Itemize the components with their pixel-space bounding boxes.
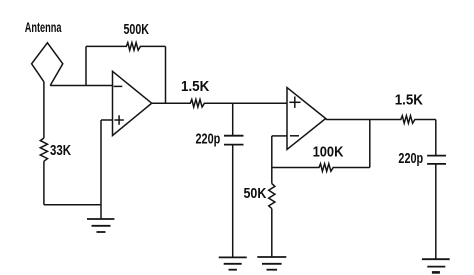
svg-text:220p: 220p — [196, 130, 221, 147]
svg-text:33K: 33K — [50, 142, 71, 159]
svg-text:1.5K: 1.5K — [395, 92, 423, 109]
svg-text:100K: 100K — [313, 143, 344, 160]
svg-text:50K: 50K — [244, 185, 267, 202]
svg-text:1.5K: 1.5K — [181, 78, 209, 95]
svg-text:Antenna: Antenna — [25, 20, 62, 35]
svg-text:500K: 500K — [124, 21, 150, 38]
svg-text:220p: 220p — [398, 150, 423, 167]
